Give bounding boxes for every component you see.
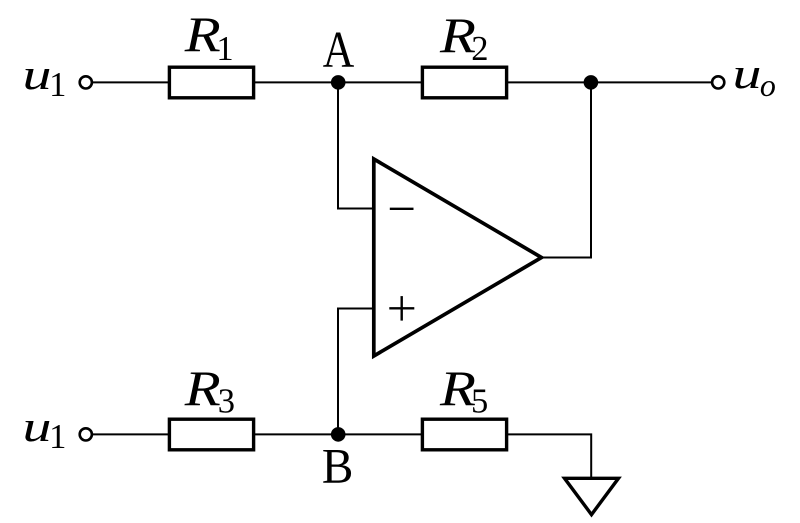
- node A: [331, 75, 346, 90]
- svg-text:u: u: [23, 52, 52, 99]
- label R3: [184, 360, 235, 421]
- terminal circle top-left input: [80, 76, 92, 88]
- minus sign (inverting input): [390, 208, 414, 210]
- svg-text:2: 2: [471, 30, 488, 68]
- op-amp U1: [374, 159, 542, 356]
- node junction (output): [584, 75, 599, 90]
- svg-text:A: A: [323, 22, 355, 79]
- wire node to output terminal: [591, 81, 712, 83]
- ground: [565, 478, 619, 514]
- label u1 (bottom input): [23, 404, 67, 456]
- label uo (output): [733, 51, 776, 103]
- svg-text:1: 1: [216, 30, 233, 68]
- label R2: [439, 7, 489, 68]
- svg-text:5: 5: [471, 382, 488, 420]
- wire R1 to node A: [255, 81, 338, 83]
- label u1 (top input): [23, 52, 67, 104]
- wire op-amp output up to node: [542, 82, 592, 257]
- wire node B to R5: [338, 433, 422, 435]
- plus sign (non-inverting input): [389, 296, 414, 321]
- terminal circle bottom-left input: [80, 428, 92, 440]
- svg-text:1: 1: [49, 418, 66, 456]
- svg-text:3: 3: [218, 382, 235, 420]
- svg-text:R: R: [184, 6, 221, 62]
- svg-text:R: R: [184, 360, 221, 416]
- resistor R1: [169, 67, 253, 98]
- svg-text:B: B: [322, 438, 354, 493]
- wire R3 to node B: [255, 433, 338, 435]
- svg-text:u: u: [733, 51, 762, 98]
- wire R2 to output node: [506, 81, 591, 83]
- resistor R3: [169, 419, 253, 450]
- wire input u1 to R1: [92, 81, 169, 83]
- resistor R5: [422, 419, 506, 450]
- wire node A down to inverting input: [338, 82, 375, 208]
- svg-text:1: 1: [49, 66, 66, 104]
- node B: [331, 427, 346, 442]
- resistor R2: [422, 67, 506, 98]
- label R5: [439, 360, 488, 420]
- wire node B up to non-inverting input: [338, 309, 375, 435]
- wire input u1 to R3: [92, 433, 169, 435]
- wire R5 to ground: [506, 434, 591, 478]
- wire node A to R2: [338, 81, 422, 83]
- svg-text:u: u: [23, 404, 52, 451]
- svg-text:o: o: [760, 67, 776, 103]
- terminal circle output: [712, 76, 724, 88]
- label R1: [184, 6, 234, 68]
